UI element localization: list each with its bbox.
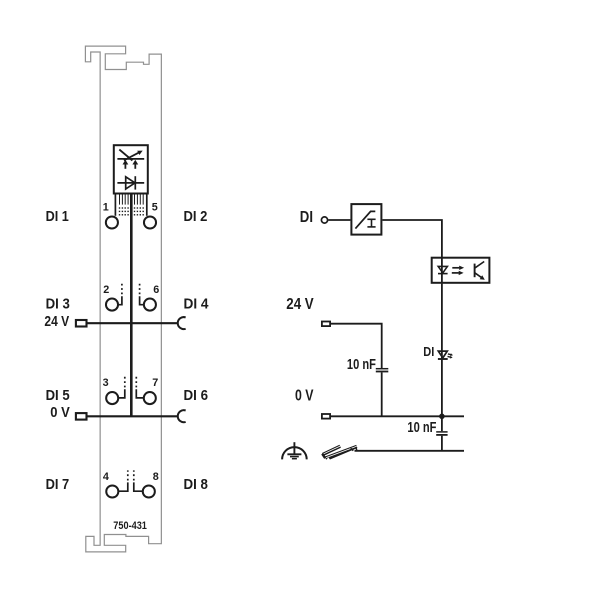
svg-text:24 V: 24 V [286,296,314,313]
pin number 2 [103,284,109,296]
label 0 V schematic [295,387,314,404]
pin number 3 [103,377,109,389]
terminal 7 contact [136,377,143,398]
pin number 8 [153,471,159,483]
wire junction to C2 [441,416,443,431]
label 24 V module [44,313,69,330]
schematic: DI input terminal circle [321,217,327,223]
svg-text:4: 4 [103,471,109,483]
LED indicator DI [438,351,448,359]
opto phototransistor Q1 [475,262,485,280]
svg-text:DI 7: DI 7 [46,476,70,493]
pin number 6 [153,284,159,296]
svg-text:DI: DI [300,209,313,226]
svg-text:DI 3: DI 3 [46,296,70,313]
wire through opto [441,258,443,284]
terminal 3 contact [119,377,125,398]
24V terminal plug [76,320,87,327]
svg-text:DI 1: DI 1 [46,208,69,225]
svg-text:DI 5: DI 5 [46,387,70,404]
svg-text:DI 8: DI 8 [184,476,208,493]
wire U1 to terminal 1 [114,195,116,216]
pin number 5 [152,202,158,214]
label 0 V module [50,404,70,421]
label DI 8 [184,476,208,493]
capacitor C2 10nF [436,432,447,435]
terminal 6 contact [140,283,144,304]
wire opto to 0V junction [441,284,443,417]
optocoupler box U3 [432,258,490,283]
svg-text:750-431: 750-431 [113,520,147,532]
pin number 4 [103,471,109,483]
surge suppressor symbol in U1 [117,150,144,169]
ground symbol [282,442,307,459]
svg-text:DI: DI [423,344,434,359]
wire U1 to terminal 5 [146,195,148,216]
svg-text:DI 2: DI 2 [184,208,208,225]
diode D1 in U1 [117,176,144,189]
terminal 2 [106,299,118,311]
terminal 4 contact [119,470,128,491]
svg-text:0 V: 0 V [295,387,314,404]
terminal 4 [106,485,118,497]
pin number 7 [152,377,158,389]
0V rail wire [331,415,464,417]
svg-text:6: 6 [153,284,159,296]
svg-text:3: 3 [103,377,109,389]
label DI LED [423,344,434,359]
terminal 8 contact [134,470,142,491]
24V field wire [87,322,178,324]
svg-text:8: 8 [153,471,159,483]
wire filter to opto node [382,220,442,258]
terminal 8 [143,485,155,497]
label DI 7 [46,476,70,493]
label DI input [300,209,313,226]
ramp symbol in U2 [355,211,375,228]
label DI 4 [184,296,210,313]
I symbol in U2 [367,219,375,227]
svg-text:2: 2 [103,284,109,296]
svg-text:10 nF: 10 nF [407,420,436,436]
LED light arrows [448,353,454,358]
svg-text:24 V: 24 V [44,313,69,330]
terminal 2 contact [119,283,122,304]
protection box U1 [114,145,148,193]
terminal 6 [144,299,156,311]
0V field wire [87,415,178,417]
label 10 nF C1 [347,357,376,373]
svg-text:5: 5 [152,202,158,214]
terminal 5 [144,216,156,228]
label 750-431 [113,520,147,532]
opto LED [438,266,448,273]
label DI 3 [46,296,70,313]
junction node [439,414,445,420]
0V terminal plug [76,413,87,420]
pin number 1 [103,202,109,214]
internal bus wire [130,195,133,417]
capacitor C1 10nF [376,369,389,372]
label 10 nF C2 [407,420,436,436]
label 24 V schematic [286,296,314,313]
wire C2 to earth rail [441,436,443,451]
terminal 3 [106,392,118,404]
svg-text:10 nF: 10 nF [347,357,376,373]
24V schematic terminal plug [322,322,330,327]
wire C1 to 0V rail [381,372,383,416]
label DI 5 [46,387,70,404]
svg-text:1: 1 [103,202,109,214]
wire DI to filter [328,219,350,221]
opto light arrows [452,266,464,276]
DIN rail icon [322,445,357,460]
label DI 1 [46,208,69,225]
module 750-431 outline [85,46,161,552]
filter block U2 [351,204,381,235]
label DI 6 [184,387,209,404]
svg-text:0 V: 0 V [50,404,70,421]
svg-text:DI 6: DI 6 [184,387,209,404]
earth rail wire [355,450,465,452]
svg-text:7: 7 [152,377,158,389]
0V C-clamp connector [178,410,186,422]
pins under U1 [120,195,144,205]
terminal 7 [144,392,156,404]
label DI 2 [184,208,208,225]
svg-text:DI 4: DI 4 [184,296,210,313]
dotted pin continuations [119,207,144,215]
0V schematic terminal plug [322,414,330,419]
24V C-clamp connector [178,317,186,329]
wire 24V to capacitor branch [331,324,382,368]
terminal 1 [106,216,118,228]
